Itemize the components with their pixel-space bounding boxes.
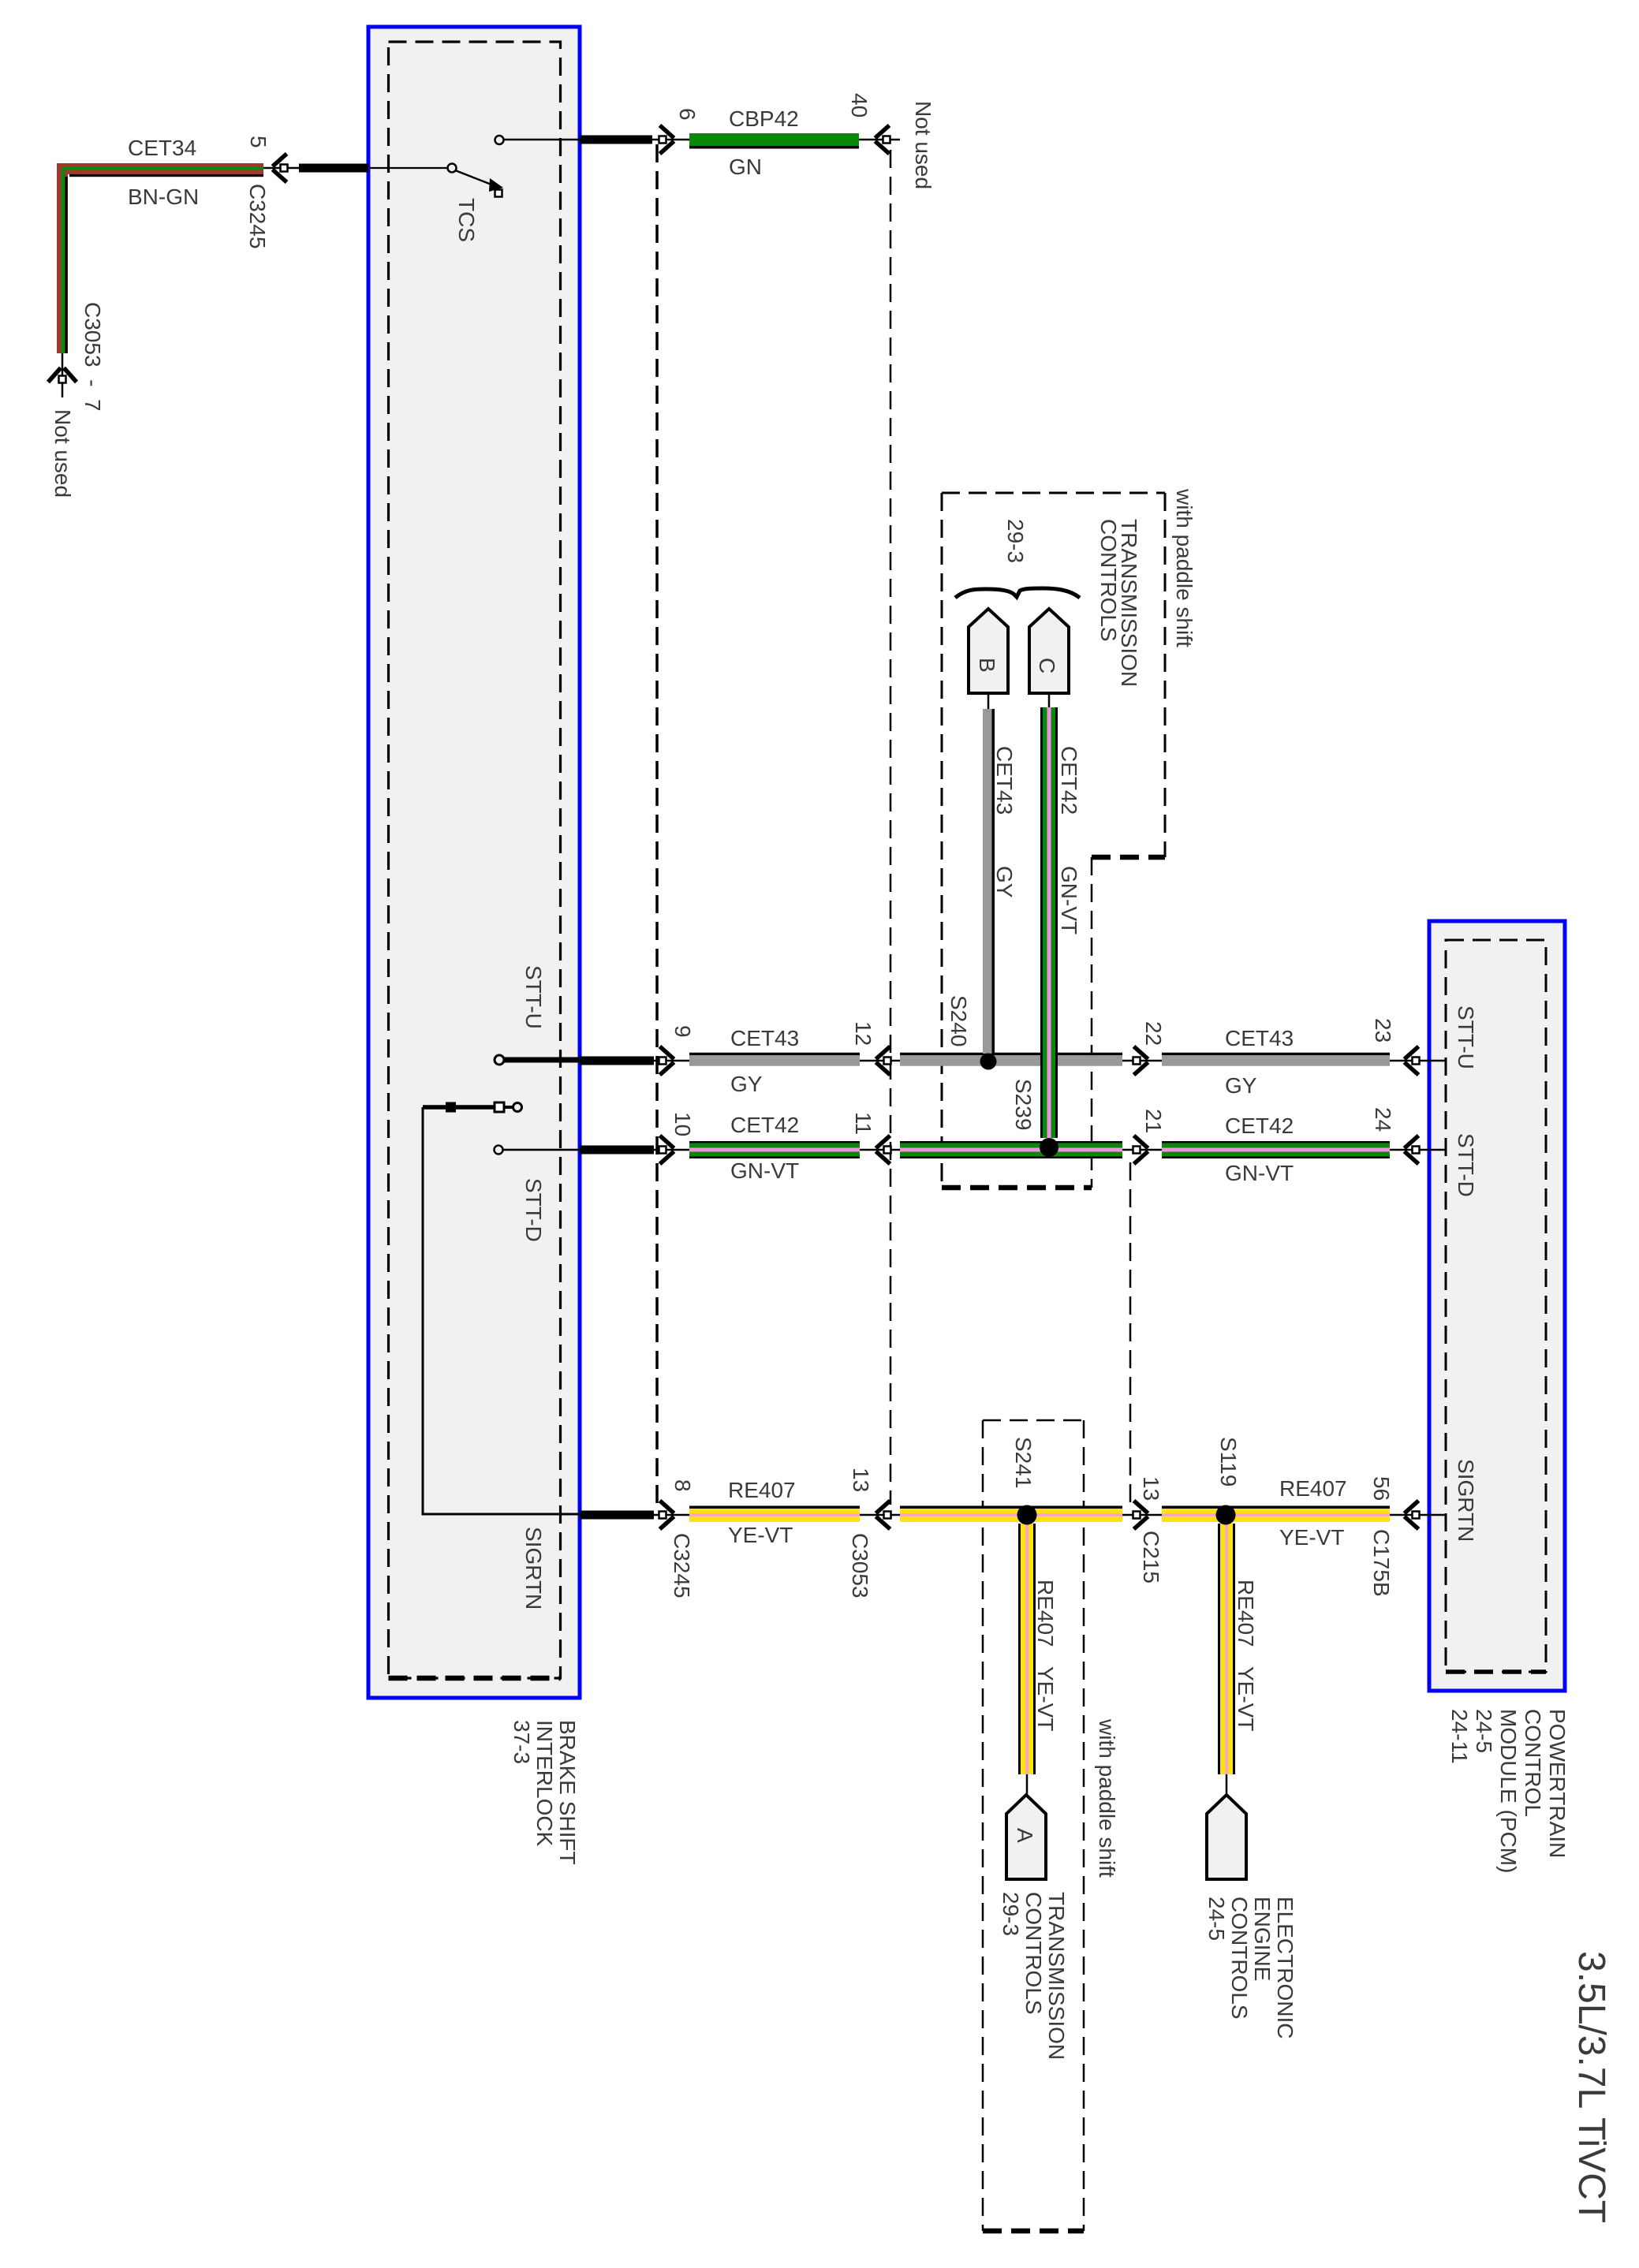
- svg-text:B: B: [975, 658, 999, 673]
- svg-text:GN: GN: [729, 155, 762, 179]
- svg-text:11: 11: [851, 1112, 876, 1135]
- svg-text:10: 10: [670, 1112, 695, 1136]
- svg-text:CET43: CET43: [992, 746, 1017, 815]
- svg-text:C175B: C175B: [1369, 1529, 1394, 1597]
- svg-text:MODULE (PCM): MODULE (PCM): [1496, 1709, 1521, 1873]
- svg-text:INTERLOCK: INTERLOCK: [532, 1720, 557, 1847]
- svg-text:S119: S119: [1216, 1437, 1241, 1487]
- svg-text:GY: GY: [730, 1072, 763, 1096]
- svg-text:5: 5: [246, 136, 271, 148]
- svg-text:YE-VT: YE-VT: [1279, 1525, 1344, 1550]
- svg-text:S241: S241: [1011, 1437, 1036, 1488]
- svg-text:GN-VT: GN-VT: [1225, 1161, 1294, 1185]
- svg-text:SIGRTN: SIGRTN: [1454, 1459, 1478, 1542]
- svg-text:GN-VT: GN-VT: [1057, 866, 1081, 934]
- svg-text:CET42: CET42: [1057, 746, 1081, 815]
- svg-text:GY: GY: [992, 866, 1017, 898]
- svg-text:56: 56: [1369, 1476, 1394, 1501]
- svg-text:YE-VT: YE-VT: [1033, 1666, 1058, 1731]
- svg-text:C3053 - 7: C3053 - 7: [80, 302, 105, 412]
- svg-text:13: 13: [849, 1468, 873, 1492]
- svg-text:CET34: CET34: [128, 136, 196, 160]
- svg-text:POWERTRAIN: POWERTRAIN: [1545, 1709, 1570, 1858]
- svg-text:29-3: 29-3: [999, 1892, 1023, 1936]
- svg-text:ELECTRONIC: ELECTRONIC: [1273, 1897, 1297, 2039]
- svg-text:STT-U: STT-U: [1454, 1005, 1478, 1069]
- svg-text:8: 8: [670, 1479, 695, 1492]
- svg-text:BRAKE SHIFT: BRAKE SHIFT: [555, 1720, 580, 1865]
- svg-text:RE407: RE407: [1033, 1580, 1058, 1647]
- svg-text:Not used: Not used: [911, 101, 935, 189]
- svg-text:TCS: TCS: [454, 198, 479, 242]
- svg-text:YE-VT: YE-VT: [1234, 1666, 1258, 1731]
- svg-text:CET42: CET42: [730, 1113, 799, 1137]
- svg-text:S240: S240: [946, 995, 971, 1046]
- svg-text:A: A: [1013, 1828, 1037, 1843]
- svg-text:STT-U: STT-U: [521, 965, 546, 1029]
- svg-text:3.5L/3.7L TiVCT: 3.5L/3.7L TiVCT: [1570, 1951, 1612, 2223]
- svg-text:CBP42: CBP42: [729, 106, 799, 131]
- svg-text:9: 9: [670, 1025, 695, 1038]
- svg-text:ENGINE: ENGINE: [1250, 1897, 1275, 1981]
- svg-text:24-5: 24-5: [1472, 1709, 1496, 1753]
- svg-text:GN-VT: GN-VT: [730, 1158, 799, 1183]
- svg-text:29-3: 29-3: [1003, 519, 1028, 563]
- svg-text:C3245: C3245: [245, 184, 270, 249]
- svg-text:CET43: CET43: [730, 1026, 799, 1050]
- svg-text:CONTROLS: CONTROLS: [1021, 1892, 1046, 2015]
- svg-text:6: 6: [675, 108, 700, 121]
- svg-text:24: 24: [1371, 1107, 1395, 1132]
- svg-text:STT-D: STT-D: [1454, 1133, 1478, 1197]
- svg-text:CONTROLS: CONTROLS: [1227, 1897, 1252, 2020]
- svg-text:GY: GY: [1225, 1073, 1257, 1098]
- svg-text:C215: C215: [1139, 1531, 1163, 1583]
- svg-text:S239: S239: [1011, 1079, 1036, 1130]
- svg-text:YE-VT: YE-VT: [728, 1523, 793, 1547]
- svg-text:23: 23: [1371, 1018, 1395, 1043]
- svg-text:STT-D: STT-D: [521, 1178, 546, 1242]
- svg-text:BN-GN: BN-GN: [128, 185, 199, 209]
- svg-text:RE407: RE407: [1279, 1476, 1347, 1501]
- svg-text:CET43: CET43: [1225, 1026, 1294, 1050]
- svg-text:37-3: 37-3: [510, 1720, 534, 1764]
- svg-text:21: 21: [1141, 1109, 1166, 1133]
- svg-text:CET42: CET42: [1225, 1113, 1294, 1138]
- svg-text:24-5: 24-5: [1204, 1897, 1229, 1941]
- svg-text:12: 12: [851, 1021, 876, 1046]
- svg-text:40: 40: [847, 93, 872, 118]
- svg-text:RE407: RE407: [1234, 1580, 1258, 1647]
- svg-text:C3245: C3245: [670, 1533, 694, 1598]
- svg-text:RE407: RE407: [728, 1478, 796, 1502]
- svg-text:13: 13: [1139, 1476, 1163, 1501]
- svg-text:C3053: C3053: [848, 1533, 872, 1598]
- svg-text:24-11: 24-11: [1447, 1709, 1472, 1764]
- svg-text:SIGRTN: SIGRTN: [521, 1527, 546, 1610]
- svg-text:Not used: Not used: [50, 409, 75, 498]
- svg-text:with paddle shift: with paddle shift: [1095, 1718, 1119, 1878]
- svg-text:TRANSMISSION: TRANSMISSION: [1044, 1892, 1069, 2060]
- svg-text:with paddle shift: with paddle shift: [1172, 488, 1197, 647]
- svg-text:22: 22: [1141, 1021, 1166, 1046]
- svg-text:CONTROLS: CONTROLS: [1096, 519, 1121, 642]
- svg-text:C: C: [1035, 658, 1059, 673]
- svg-text:CONTROL: CONTROL: [1521, 1709, 1545, 1817]
